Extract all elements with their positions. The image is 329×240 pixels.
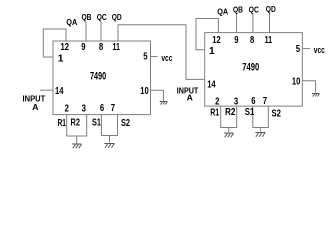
svg-text:QA: QA	[66, 17, 77, 27]
svg-text:R1: R1	[58, 118, 67, 129]
svg-text:R1: R1	[210, 108, 219, 119]
svg-text:R2: R2	[71, 118, 81, 129]
svg-text:2: 2	[65, 103, 70, 114]
svg-text:A: A	[32, 102, 38, 112]
svg-text:10: 10	[292, 77, 301, 88]
svg-text:8: 8	[99, 42, 104, 53]
svg-text:8: 8	[250, 35, 255, 46]
svg-text:QD: QD	[112, 12, 122, 22]
svg-text:9: 9	[81, 42, 86, 53]
svg-text:QD: QD	[266, 4, 276, 14]
svg-text:14: 14	[207, 80, 216, 91]
svg-text:3: 3	[234, 97, 239, 108]
svg-text:S2: S2	[272, 108, 282, 119]
svg-text:A: A	[187, 93, 193, 103]
svg-text:14: 14	[55, 86, 64, 97]
svg-text:S2: S2	[121, 118, 130, 129]
svg-text:R2: R2	[225, 107, 236, 118]
svg-text:6: 6	[100, 103, 105, 114]
svg-text:QB: QB	[82, 12, 92, 22]
svg-text:7490: 7490	[242, 61, 259, 73]
svg-text:7: 7	[263, 96, 268, 107]
svg-text:S1: S1	[92, 118, 101, 129]
svg-text:12: 12	[212, 35, 221, 46]
svg-text:10: 10	[140, 86, 149, 97]
svg-text:QC: QC	[249, 5, 259, 15]
svg-text:11: 11	[113, 42, 121, 53]
svg-text:12: 12	[61, 42, 70, 53]
svg-text:vcc: vcc	[314, 45, 325, 55]
svg-text:7: 7	[111, 103, 116, 114]
svg-text:QB: QB	[233, 5, 243, 15]
svg-text:7490: 7490	[90, 70, 106, 82]
svg-text:1: 1	[209, 46, 215, 57]
svg-text:5: 5	[296, 44, 301, 55]
svg-text:6: 6	[251, 96, 256, 107]
svg-text:2: 2	[215, 97, 220, 108]
svg-text:vcc: vcc	[161, 53, 172, 63]
svg-text:9: 9	[234, 35, 239, 46]
svg-text:QA: QA	[217, 6, 228, 16]
svg-text:3: 3	[82, 103, 87, 114]
svg-text:5: 5	[143, 52, 148, 63]
svg-text:11: 11	[265, 35, 273, 46]
svg-text:S1: S1	[245, 107, 255, 118]
svg-text:1: 1	[58, 53, 64, 64]
svg-text:QC: QC	[97, 12, 107, 22]
